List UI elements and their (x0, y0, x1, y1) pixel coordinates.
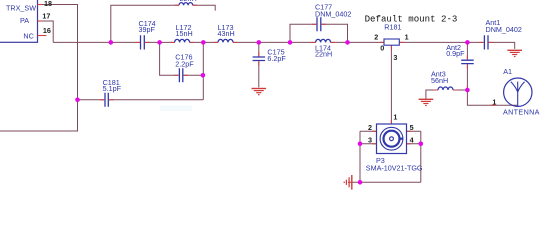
svg-text:SMA-10V21-TGG: SMA-10V21-TGG (366, 164, 423, 173)
svg-text:39pF: 39pF (139, 25, 156, 34)
svg-text:3: 3 (393, 53, 397, 62)
svg-text:0: 0 (380, 44, 384, 53)
svg-text:5: 5 (410, 123, 414, 132)
svg-text:22nH: 22nH (180, 0, 197, 3)
svg-text:0.9pF: 0.9pF (446, 49, 465, 58)
svg-text:A1: A1 (503, 67, 512, 76)
svg-text:ANTENNA: ANTENNA (503, 107, 540, 116)
svg-text:TRX_SW: TRX_SW (6, 4, 36, 13)
svg-text:5.1pF: 5.1pF (103, 84, 122, 93)
svg-text:16: 16 (43, 26, 51, 35)
svg-text:15nH: 15nH (176, 29, 193, 38)
svg-text:43nH: 43nH (218, 29, 235, 38)
svg-text:2.2pF: 2.2pF (175, 60, 194, 69)
svg-text:PA: PA (20, 16, 29, 25)
svg-text:1: 1 (393, 113, 397, 122)
svg-text:17: 17 (42, 11, 50, 20)
svg-text:1: 1 (492, 97, 496, 106)
svg-text:3: 3 (368, 135, 372, 144)
svg-text:22nH: 22nH (315, 50, 332, 59)
svg-text:NC: NC (23, 32, 33, 41)
svg-text:Default mount 2-3: Default mount 2-3 (365, 14, 458, 25)
svg-text:56nH: 56nH (431, 76, 448, 85)
svg-text:2: 2 (374, 32, 378, 41)
svg-text:DNM_0402: DNM_0402 (315, 10, 351, 19)
svg-text:18: 18 (44, 0, 52, 8)
svg-text:4: 4 (410, 135, 414, 144)
svg-text:6.2pF: 6.2pF (267, 54, 286, 63)
svg-text:1: 1 (405, 32, 409, 41)
svg-text:DNM_0402: DNM_0402 (486, 25, 522, 34)
svg-text:2: 2 (368, 123, 372, 132)
